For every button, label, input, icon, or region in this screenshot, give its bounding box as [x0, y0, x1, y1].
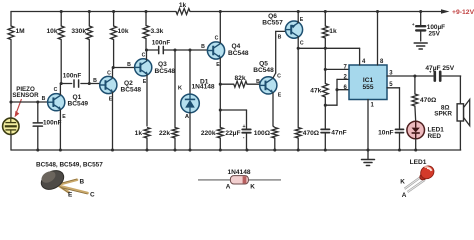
resistor 470R (LED): [414, 76, 416, 94]
wire Q3 collector: [146, 50, 148, 60]
wire: [415, 139, 417, 150]
svg-text:SPKR: SPKR: [434, 111, 452, 118]
ground (pin 1): [367, 150, 369, 160]
svg-text:B: B: [201, 44, 205, 50]
resistor 22k: [174, 50, 176, 128]
svg-text:470Ω: 470Ω: [303, 130, 320, 137]
svg-text:BC548: BC548: [228, 50, 249, 57]
svg-text:1M: 1M: [16, 28, 26, 35]
svg-text:10k: 10k: [118, 28, 129, 35]
svg-text:BC548: BC548: [121, 86, 142, 93]
wire Q4 emitter: [219, 58, 221, 126]
pin 1: [367, 100, 369, 151]
svg-text:47k: 47k: [310, 88, 321, 95]
svg-text:BC548: BC548: [155, 68, 176, 75]
wire pin7 to 47k top node: [325, 68, 349, 70]
svg-text:22µF: 22µF: [225, 130, 240, 137]
svg-text:330k: 330k: [71, 28, 86, 35]
wire reset node y=48.3: [298, 47, 359, 49]
svg-text:1k: 1k: [329, 28, 337, 35]
wire: [10, 134, 12, 150]
capacitor 10nF (pin 5): [399, 88, 401, 130]
wire: [81, 83, 100, 85]
wire Q5 collector to Q6 base: [273, 73, 276, 78]
svg-text:C: C: [142, 53, 146, 59]
wire: [10, 40, 12, 119]
resistor 470R (Q6 collector load): [297, 48, 299, 127]
speaker 8R: [459, 76, 461, 104]
svg-text:E: E: [278, 93, 282, 99]
svg-text:RED: RED: [428, 133, 442, 140]
resistor 10k (second): [113, 12, 115, 27]
svg-text:22k: 22k: [159, 130, 170, 137]
transistor Q3 BC548: [135, 59, 152, 76]
svg-text:BC557: BC557: [262, 19, 283, 26]
svg-text:100nF: 100nF: [63, 73, 82, 80]
svg-text:B: B: [42, 96, 46, 102]
transistor Q6 BC557 (PNP): [285, 21, 302, 38]
supply arrow +9-12V: [441, 9, 450, 14]
wire Q3 base: [113, 67, 134, 69]
resistor 220k: [219, 126, 221, 128]
capacitor 100nF (Q1-Q2 coupling): [73, 80, 75, 87]
resistor 100R (Q5 emitter): [272, 128, 278, 139]
wire pins 2+6 to 47k bottom: [337, 78, 349, 80]
TO-92 transistor picture: [38, 167, 88, 194]
LED1 RED: [407, 121, 425, 139]
svg-text:+: +: [429, 69, 432, 74]
svg-text:+: +: [242, 124, 245, 130]
transistor Q1 BC549: [48, 94, 65, 111]
svg-text:1k: 1k: [135, 130, 143, 137]
svg-text:47nF: 47nF: [331, 130, 346, 137]
svg-text:C: C: [215, 36, 219, 42]
piezo sensor: [3, 118, 19, 134]
svg-text:1N4148: 1N4148: [227, 169, 250, 176]
svg-text:K: K: [400, 178, 405, 185]
capacitor 100nF (piezo input): [37, 102, 39, 123]
capacitor 100nF (Q3-Q4 coupling): [158, 46, 160, 53]
svg-text:3.3k: 3.3k: [151, 28, 164, 35]
pin 8: [377, 12, 379, 66]
svg-text:C: C: [54, 87, 58, 93]
svg-text:BC549: BC549: [68, 101, 89, 108]
resistor 3.3k: [145, 12, 147, 26]
ground (supply cap): [414, 42, 427, 44]
svg-text:C: C: [107, 70, 111, 76]
wire Q2 collector: [112, 68, 114, 78]
svg-text:470Ω: 470Ω: [420, 97, 437, 104]
wire Q6 collector: [297, 37, 299, 49]
pin 4: [359, 48, 361, 65]
svg-text:A: A: [226, 184, 231, 191]
resistor 330k: [88, 12, 90, 27]
svg-text:220k: 220k: [201, 130, 216, 137]
transistor Q4 BC548: [207, 42, 224, 59]
resistor 10k (first): [60, 12, 62, 27]
svg-text:-: -: [243, 135, 245, 141]
transistor Q5 BC548: [260, 77, 277, 94]
svg-text:B: B: [278, 35, 282, 41]
svg-text:E: E: [143, 79, 147, 85]
resistor 47k: [324, 48, 326, 83]
svg-text:B: B: [80, 179, 85, 186]
capacitor 22uF (electrolytic): [220, 109, 246, 111]
svg-text:1N4148: 1N4148: [192, 84, 215, 91]
svg-text:C: C: [300, 40, 304, 46]
svg-text:B: B: [93, 78, 97, 84]
svg-text:82k: 82k: [234, 75, 245, 82]
IC1 555 timer: [349, 65, 387, 100]
svg-text:100Ω: 100Ω: [254, 130, 271, 137]
resistor 82k (Q4 emitter to Q5 base): [220, 83, 234, 85]
pin 5: [387, 87, 400, 89]
capacitor 47nF: [324, 105, 326, 129]
svg-text:+: +: [412, 22, 415, 27]
wire Q1 collector: [59, 84, 61, 95]
svg-text:100nF: 100nF: [152, 40, 171, 47]
svg-text:E: E: [300, 17, 304, 23]
capacitor 47uF 25V (output, electrolytic): [433, 72, 436, 81]
svg-text:BC548, BC549, BC557: BC548, BC549, BC557: [36, 162, 103, 169]
node: Q1 base wire: [11, 101, 48, 103]
top supply rail: [11, 11, 176, 13]
svg-text:100nF: 100nF: [43, 120, 62, 127]
pin 3: [387, 75, 433, 77]
svg-text:25V: 25V: [429, 31, 441, 38]
svg-text:B: B: [256, 79, 260, 85]
svg-text:K: K: [250, 184, 255, 191]
svg-text:E: E: [68, 192, 73, 199]
transistor Q2 BC548: [100, 76, 117, 93]
svg-text:10k: 10k: [46, 28, 57, 35]
svg-text:A: A: [402, 192, 407, 198]
diode D1 1N4148: [189, 50, 191, 94]
resistor 1k (555 supply): [324, 12, 326, 27]
node wire y=50 to Q4 base: [147, 49, 159, 51]
svg-text:E: E: [62, 114, 66, 120]
wire Q4 collector: [219, 12, 221, 44]
capacitor 100uF 25V (supply, electrolytic): [420, 12, 422, 27]
wire Q1 emitter: [59, 110, 61, 150]
svg-text:BC548: BC548: [253, 67, 274, 74]
wire Q2 emitter: [112, 93, 114, 150]
svg-text:SENSOR: SENSOR: [12, 92, 39, 99]
wire Q3 emitter: [146, 75, 148, 126]
svg-text:C: C: [90, 192, 95, 199]
svg-text:B: B: [127, 62, 131, 68]
left rail with resistor 1M and piezo sensor in series: [10, 12, 12, 27]
wire Q5 emitter: [272, 93, 274, 126]
svg-text:C: C: [277, 74, 281, 80]
wire Q6 emitter to rail: [297, 12, 299, 23]
bottom rail: [11, 149, 461, 151]
svg-text:10nF: 10nF: [378, 130, 393, 137]
wire: [189, 113, 191, 150]
resistor 1M: [8, 26, 14, 40]
resistor 1k (Q3 emitter): [144, 128, 150, 139]
svg-text:1k: 1k: [179, 2, 187, 9]
svg-text:LED1: LED1: [410, 159, 427, 166]
resistor 1k (top rail, in series): [176, 9, 190, 15]
svg-text:555: 555: [362, 84, 373, 91]
svg-text:+9-12V: +9-12V: [452, 9, 474, 16]
